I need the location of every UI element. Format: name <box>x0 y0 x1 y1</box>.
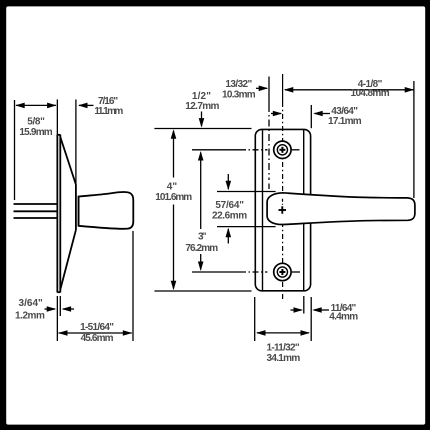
svg-text:104.8mm: 104.8mm <box>351 88 390 99</box>
svg-text:101.6mm: 101.6mm <box>155 192 192 203</box>
svg-text:1.2mm: 1.2mm <box>15 311 45 322</box>
svg-text:3": 3" <box>198 232 207 243</box>
svg-text:1-11/32": 1-11/32" <box>267 342 300 353</box>
svg-text:57/64": 57/64" <box>215 200 244 211</box>
svg-text:22.6mm: 22.6mm <box>212 211 247 222</box>
svg-text:45.6mm: 45.6mm <box>81 333 114 344</box>
svg-text:34.1mm: 34.1mm <box>266 353 300 364</box>
svg-text:12.7mm: 12.7mm <box>185 101 219 112</box>
svg-text:10.3mm: 10.3mm <box>222 89 256 100</box>
svg-text:11.1mm: 11.1mm <box>94 106 123 117</box>
svg-text:76.2mm: 76.2mm <box>185 243 218 254</box>
svg-text:5/8": 5/8" <box>27 117 45 128</box>
svg-text:17.1mm: 17.1mm <box>328 116 362 127</box>
svg-text:3/64": 3/64" <box>19 298 44 309</box>
svg-text:4.4mm: 4.4mm <box>329 312 358 323</box>
svg-text:15.9mm: 15.9mm <box>19 127 52 138</box>
svg-text:1-51/64": 1-51/64" <box>80 322 114 333</box>
